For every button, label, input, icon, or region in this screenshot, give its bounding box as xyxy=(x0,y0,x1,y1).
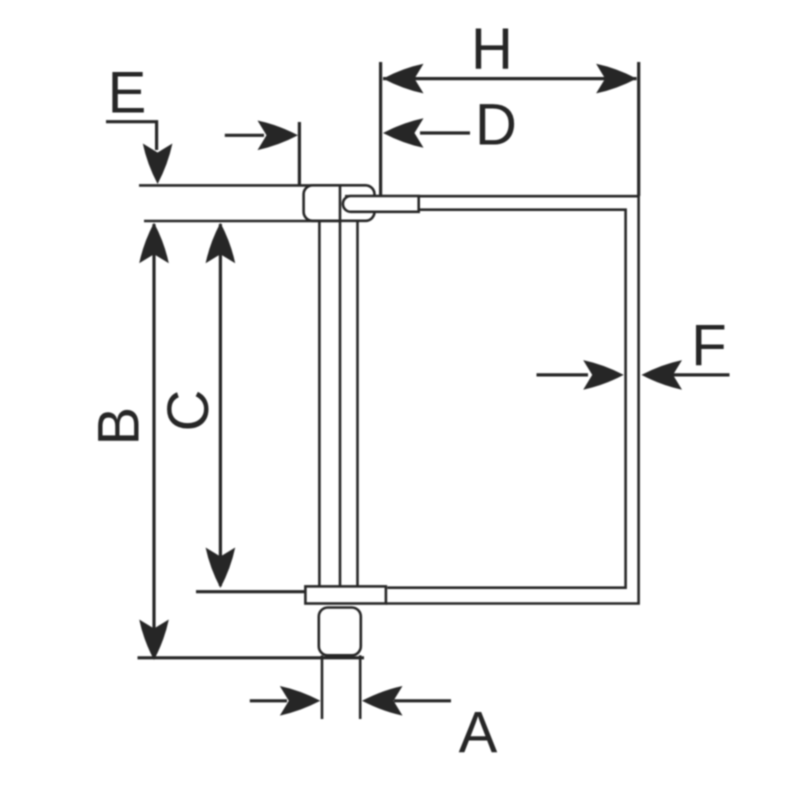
svg-text:E: E xyxy=(108,61,147,126)
svg-text:D: D xyxy=(475,93,517,158)
svg-text:A: A xyxy=(459,701,498,766)
svg-text:C: C xyxy=(156,390,221,432)
svg-text:F: F xyxy=(691,314,726,379)
svg-text:B: B xyxy=(87,407,152,446)
svg-text:H: H xyxy=(471,17,513,82)
